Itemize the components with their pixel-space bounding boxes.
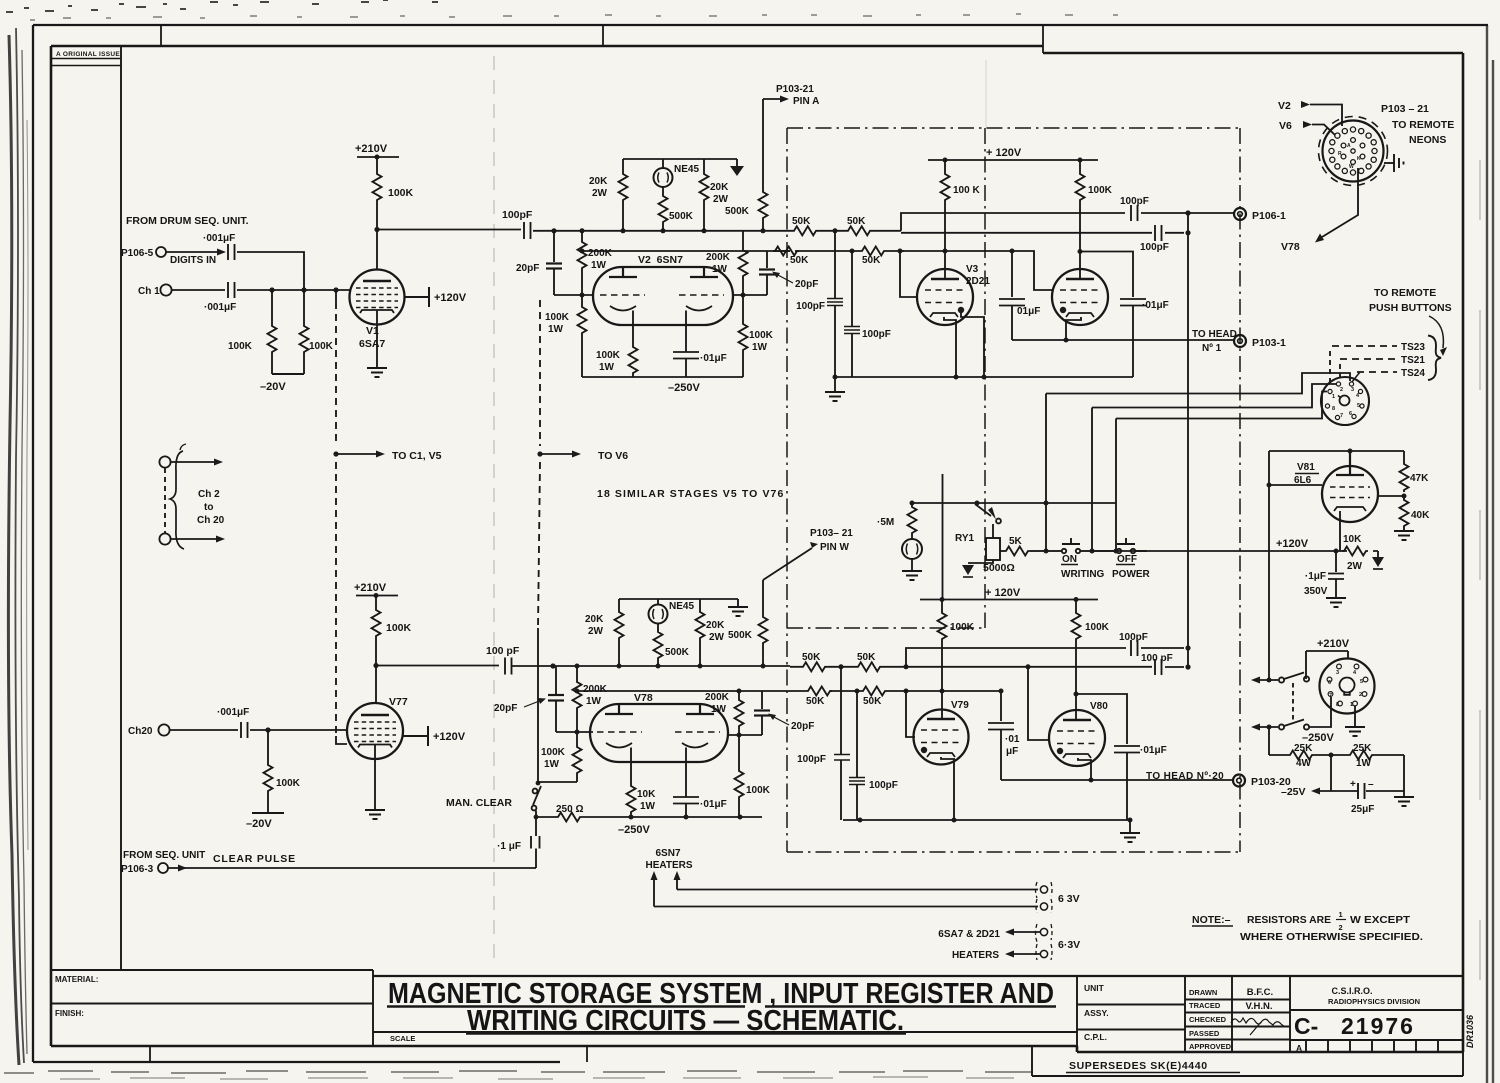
node riser A rail: [1044, 501, 1049, 506]
svg-text:UNIT: UNIT: [1084, 983, 1105, 993]
wire riser A (to socket pin1): [1045, 394, 1047, 552]
terminal P103-20: [1233, 775, 1291, 789]
capacitor ·001uF (Ch1): [204, 282, 236, 313]
resistor 100K (Ch20 grid return): [264, 730, 301, 813]
terminal Ch20: [128, 724, 170, 737]
svg-text:+ 120V: + 120V: [986, 147, 1022, 159]
wire V78 left grid line: [556, 731, 593, 733]
svg-text:CHECKED: CHECKED: [1189, 1015, 1227, 1024]
capacitor 100 pF (output 20b): [1141, 653, 1184, 675]
wire V2 neon pointer: [1278, 100, 1342, 126]
svg-text:A: A: [1347, 143, 1351, 149]
pushbutton OFF: [1092, 538, 1147, 553]
fraction 1/2: [1339, 910, 1343, 932]
tube V4 2D21: [1052, 269, 1108, 325]
wire TO HEAD No20 line: [1001, 779, 1233, 781]
label P103-21 TO REMOTE NEONS: [1381, 103, 1454, 146]
svg-text:200K: 200K: [583, 684, 608, 695]
svg-text:+ 120V: + 120V: [985, 587, 1021, 599]
svg-text:FROM DRUM SEQ. UNIT.: FROM DRUM SEQ. UNIT.: [126, 215, 249, 227]
svg-text:1W: 1W: [712, 264, 728, 275]
node V2 right grid: [741, 293, 746, 298]
svg-text:V78: V78: [1281, 241, 1300, 253]
arrow into cap: [217, 249, 226, 256]
svg-text:ASSY.: ASSY.: [1084, 1008, 1109, 1018]
tube V79 2D21: [914, 700, 970, 765]
svg-text:5K: 5K: [1009, 536, 1023, 547]
svg-text:RADIOPHYSICS DIVISION: RADIOPHYSICS DIVISION: [1328, 997, 1420, 1006]
wire -250V rail 20: [536, 816, 762, 818]
node B mid: [850, 249, 855, 254]
ground V1: [367, 368, 387, 377]
svg-text:1W: 1W: [591, 260, 607, 271]
node second output: [1185, 230, 1190, 235]
svg-text:47K: 47K: [1410, 473, 1429, 484]
resistor 20K 2W (right 20): [696, 610, 726, 666]
svg-text:V6: V6: [1279, 120, 1292, 132]
node A mid: [833, 228, 838, 233]
node +120V at V77: [403, 726, 466, 746]
svg-text:TO C1, V5: TO C1, V5: [392, 450, 442, 462]
node 100K right bottom: [738, 815, 743, 820]
tube V81 6L6: [1322, 451, 1378, 522]
resistor 47K: [1400, 451, 1430, 492]
svg-text:TS23: TS23: [1401, 342, 1425, 353]
svg-text:NOTE:–: NOTE:–: [1192, 914, 1231, 926]
node 25K mid: [1329, 753, 1334, 758]
node V80 cathode joins head20: [1089, 778, 1094, 783]
svg-text:+120V: +120V: [433, 731, 466, 743]
svg-text:P103-21: P103-21: [776, 84, 814, 95]
resistor 25K 4W: [1269, 743, 1348, 769]
arrow curve to TS group: [1429, 316, 1443, 348]
switch manual clear: [532, 781, 541, 836]
svg-text:100K: 100K: [545, 312, 570, 323]
svg-text:1W: 1W: [586, 696, 602, 707]
neon lamp (writing indicator): [902, 535, 922, 559]
node TO C1,V5: [333, 451, 338, 456]
svg-text:1: 1: [1339, 910, 1343, 919]
wire V81 grid from switch riser: [1268, 451, 1270, 680]
wire V78 neon pointer: [1281, 168, 1358, 253]
wire right grid line 20: [728, 734, 762, 736]
svg-text:·1 μF: ·1 μF: [497, 841, 521, 852]
svg-text:6·3V: 6·3V: [1058, 939, 1080, 951]
node cap1 top: [1010, 249, 1015, 254]
wire rail A20 to second cap: [906, 666, 1152, 668]
resistor 25K 1W: [1348, 743, 1404, 769]
resistor 100K (V3 plate load): [941, 160, 981, 279]
capacitor 20pF (right trimmer 20): [754, 691, 814, 735]
capacitor 100pF (output 20a): [1119, 632, 1184, 656]
svg-text:DRAWN: DRAWN: [1189, 988, 1217, 997]
svg-text:100K: 100K: [386, 622, 412, 634]
svg-text:5: 5: [1357, 403, 1360, 409]
svg-text:–250V: –250V: [618, 824, 650, 836]
wire switch top to bias chain: [538, 781, 577, 783]
wire rail A20 50K chain: [790, 666, 906, 668]
switch RY1 contact: [975, 504, 1001, 523]
resistor 100K (V80 plate load): [1072, 600, 1110, 721]
revision strip: A ORIGINAL ISSUE: [120, 46, 122, 970]
node 20K right bottom: [702, 228, 707, 233]
resistor 100K 1W (right bias): [739, 295, 774, 377]
wire top rail (+ supply of NE45 chain): [623, 159, 737, 172]
brace Ch2-Ch20: [170, 451, 184, 549]
svg-text:1W: 1W: [752, 342, 768, 353]
wire rail A (plate bus): [553, 230, 790, 232]
node grid bus junction: [333, 287, 338, 292]
svg-text:100K: 100K: [950, 622, 975, 633]
svg-text:W EXCEPT: W EXCEPT: [1350, 914, 1411, 926]
wire V3 shield to rail: [961, 313, 984, 377]
switch gang link dashed: [1292, 683, 1294, 723]
resistor 50K (A20-1): [801, 652, 827, 671]
neon lamp NE45: [654, 164, 700, 187]
svg-text:8: 8: [1336, 702, 1339, 708]
resistor ·5M: [877, 505, 917, 535]
ground stage rail: [825, 377, 845, 401]
node -20V rail: [260, 374, 304, 393]
svg-text:WRITING: WRITING: [1061, 569, 1105, 580]
svg-text:+120V: +120V: [434, 292, 467, 304]
socket octal (+210V): [1320, 659, 1375, 714]
svg-text:21976: 21976: [1341, 1013, 1415, 1039]
label 6SN7 HEATERS: [645, 848, 692, 871]
svg-text:FINISH:: FINISH:: [55, 1009, 84, 1018]
resistor 20K 2W (left): [589, 172, 628, 231]
wire junction to coupling cap: [376, 665, 499, 667]
wire right grid line: [733, 294, 767, 296]
node 100K right top 20: [1074, 597, 1079, 602]
svg-text:P106-1: P106-1: [1252, 210, 1286, 222]
svg-text:P103 – 21: P103 – 21: [1381, 103, 1429, 115]
wire writing rail to +120V rail: [942, 474, 944, 599]
ground stage20 rail: [1120, 820, 1140, 842]
svg-text:TRACED: TRACED: [1189, 1001, 1221, 1010]
top fold ticks: [161, 25, 1043, 53]
ground 40K: [1394, 531, 1414, 540]
svg-text:100K: 100K: [1088, 185, 1113, 196]
node 500K/NE45 bottom: [661, 228, 666, 233]
svg-text:20K: 20K: [589, 176, 608, 187]
terminal P103-1: [1234, 335, 1286, 349]
node 20K left bottom 20: [617, 664, 622, 669]
svg-text:25K: 25K: [1353, 743, 1372, 754]
svg-text:Nº 1: Nº 1: [1202, 343, 1222, 354]
wire arrow Ch2: [171, 461, 214, 463]
node B junction: [898, 249, 903, 254]
wire -25V tap: [1318, 755, 1331, 791]
capacitor ·01uF (V78 cathode right): [673, 797, 727, 817]
svg-text:50K: 50K: [847, 216, 866, 227]
resistor 5K: [1000, 536, 1046, 556]
svg-text:500K: 500K: [728, 630, 753, 641]
node B20 mid: [855, 689, 860, 694]
svg-text:20pF: 20pF: [516, 263, 539, 274]
capacitor ·01uF (V79 to head): [988, 691, 1020, 780]
label ON WRITING: [1061, 554, 1105, 580]
node Ch20 junction: [265, 727, 270, 732]
svg-text:50K: 50K: [862, 255, 881, 266]
terminal P106-1: [1234, 208, 1286, 222]
node 100K left top 20: [940, 597, 945, 602]
svg-text:40K: 40K: [1411, 510, 1430, 521]
svg-text:HEATERS: HEATERS: [952, 950, 999, 961]
svg-text:100pF: 100pF: [502, 209, 533, 221]
wire arrow TO C1,V5: [336, 453, 376, 455]
node V78 left grid: [575, 730, 580, 735]
svg-text:1W: 1W: [548, 324, 564, 335]
node +210V label: [1306, 638, 1350, 679]
node V78 right grid: [737, 733, 742, 738]
svg-text:50K: 50K: [857, 652, 876, 663]
node V80 plate tap: [1074, 692, 1079, 697]
svg-text:CLEAR PULSE: CLEAR PULSE: [213, 853, 296, 865]
node 200K top: [580, 228, 585, 233]
resistor 100K (grid return left): [228, 290, 277, 374]
node +210V supply V77: [354, 582, 398, 608]
node RY1 arm: [975, 501, 980, 506]
wire V81 top rail: [1269, 450, 1404, 452]
svg-text:100 pF: 100 pF: [486, 645, 520, 657]
svg-text:K: K: [1357, 156, 1361, 162]
resistor 500K (below NE45 20): [654, 624, 690, 667]
svg-text:500K: 500K: [669, 211, 694, 222]
svg-text:P103– 21: P103– 21: [810, 528, 853, 539]
node 500K bottom 20: [761, 664, 766, 669]
node 5K to riser: [1044, 549, 1049, 554]
wire V80 grid drop: [1028, 667, 1050, 740]
capacitor 20pF (left trimmer 20): [494, 666, 564, 732]
wire 25K right leg: [1403, 755, 1405, 791]
svg-text:RY1: RY1: [955, 533, 975, 544]
svg-text:100 pF: 100 pF: [1141, 653, 1173, 664]
svg-text:–250V: –250V: [668, 382, 700, 394]
node plate junction: [373, 663, 378, 668]
svg-text:25μF: 25μF: [1351, 804, 1374, 815]
capacitor 100pF (grid leak right 20): [849, 691, 898, 820]
svg-text:1: 1: [1350, 702, 1353, 708]
wire V78 cathode leads down: [631, 762, 686, 797]
resistor 50K (B20-2): [861, 687, 887, 708]
resistor 200K 1W (left coupling): [578, 231, 613, 295]
relay RY1: [955, 524, 1000, 560]
resistor 10K 1W (V78 cathode): [627, 784, 657, 817]
svg-text:50K: 50K: [802, 652, 821, 663]
svg-text:V79: V79: [951, 700, 969, 711]
wire rail B20: [577, 690, 790, 692]
capacitor ·01uF (V2 cathode right): [673, 352, 727, 377]
resistor 50K (A20-2): [856, 652, 882, 671]
svg-text:C-: C-: [1294, 1013, 1318, 1039]
svg-text:100K: 100K: [746, 785, 771, 796]
svg-text:V77: V77: [389, 696, 408, 708]
node 5M top: [910, 501, 915, 506]
svg-text:25K: 25K: [1294, 743, 1313, 754]
svg-text:100K: 100K: [1085, 622, 1110, 633]
node V2 left grid: [580, 293, 585, 298]
resistor 100K 1W (left bias 20): [541, 732, 582, 782]
svg-text:RESISTORS ARE: RESISTORS ARE: [1247, 914, 1331, 926]
svg-text:·01μF: ·01μF: [700, 799, 727, 810]
svg-text:NE45: NE45: [674, 164, 699, 175]
wire V2 cathode leads down: [633, 325, 686, 352]
wire V80 cathode to head line: [1078, 758, 1091, 780]
wire rail B 50K chain: [773, 250, 904, 252]
wire control rail: [912, 502, 1116, 504]
resistor 10K 2W: [1342, 534, 1368, 572]
node +120V rail (bottom): [920, 587, 1098, 600]
svg-text:TS21: TS21: [1401, 355, 1425, 366]
ground RY1 coil: [962, 560, 993, 577]
svg-text:6SA7: 6SA7: [359, 338, 385, 350]
wire manual clear feed: [537, 628, 539, 781]
svg-text:100K: 100K: [228, 341, 253, 352]
resistor 50K (B1): [773, 247, 809, 267]
resistor 50K (A2): [846, 216, 872, 235]
svg-text:3: 3: [1351, 387, 1354, 393]
svg-text:+120V: +120V: [1276, 538, 1309, 550]
tube V1 6SA7: [350, 270, 405, 351]
svg-text:200K: 200K: [588, 248, 613, 259]
wire V79 cathode to rail: [941, 757, 954, 820]
svg-text:10K: 10K: [637, 789, 656, 800]
svg-text:ON: ON: [1062, 554, 1077, 565]
svg-text:B.F.C.: B.F.C.: [1247, 987, 1273, 998]
ground 1uF: [1326, 598, 1346, 607]
node 100K right top: [1078, 158, 1083, 163]
svg-text:20K: 20K: [706, 620, 725, 631]
node +120V rail (V81 cathode): [1092, 538, 1378, 551]
wire cap to V1 grid: [237, 289, 350, 291]
svg-text:200K: 200K: [706, 252, 731, 263]
node V80 grid tap: [1026, 664, 1031, 669]
capacitor 100pF (second output): [901, 225, 1184, 253]
svg-text:Ch 20: Ch 20: [197, 515, 225, 526]
svg-text:TO HEAD: TO HEAD: [1192, 329, 1237, 340]
svg-text:SUPERSEDES SK(E)4440: SUPERSEDES SK(E)4440: [1069, 1060, 1208, 1072]
label TS21: [1340, 355, 1425, 366]
capacitor 1uF 350V: [1304, 551, 1344, 598]
svg-text:WRITING CIRCUITS — SCHEMATIC.: WRITING CIRCUITS — SCHEMATIC.: [467, 1005, 904, 1037]
svg-text:350V: 350V: [1304, 586, 1328, 597]
resistor 500K (to PIN A): [725, 99, 768, 231]
wire V77 cathode to ground: [374, 745, 376, 810]
label V81 6L6: [1294, 462, 1319, 486]
svg-text:100pF: 100pF: [862, 329, 891, 340]
node riser C: [1114, 549, 1119, 554]
wire V81 cathode drop: [1339, 511, 1341, 551]
svg-text:20K: 20K: [710, 182, 729, 193]
wire V79 grid drop: [906, 691, 915, 737]
svg-text:50K: 50K: [806, 696, 825, 707]
svg-text:R: R: [1338, 151, 1342, 157]
wire stage20 ground rail: [843, 819, 1130, 821]
node man clear rail: [534, 815, 539, 820]
svg-text:500K: 500K: [665, 647, 690, 658]
svg-text:2W: 2W: [709, 632, 725, 643]
label OFF POWER: [1112, 554, 1151, 580]
node B20 junction: [904, 689, 909, 694]
capacitor 01uF (V3 to head): [999, 251, 1040, 340]
wire rail B (coupling bus): [582, 250, 790, 252]
svg-text:2W: 2W: [713, 194, 729, 205]
wire top rail 20: [619, 599, 738, 610]
svg-text:C.S.I.R.O.: C.S.I.R.O.: [1331, 986, 1372, 996]
tube V78 6SN7 (racetrack): [590, 692, 728, 762]
svg-text:V80: V80: [1090, 701, 1108, 712]
svg-text:SCALE: SCALE: [390, 1034, 415, 1043]
wire long output vertical: [1187, 213, 1189, 669]
wire rail A20 (plate bus): [553, 665, 790, 667]
svg-text:50K: 50K: [790, 255, 809, 266]
wire arrow Ch20: [171, 538, 216, 540]
label P103-21 PIN A with arrow: [763, 84, 819, 107]
svg-text:100 K: 100 K: [953, 185, 980, 196]
svg-text:DR1036: DR1036: [1465, 1014, 1475, 1048]
svg-text:6: 6: [1328, 680, 1331, 686]
ground arrow (top right of NE45 rail): [730, 166, 744, 176]
label 6SA7 & 2D21 heaters: [938, 929, 1000, 961]
wire output riser 20: [906, 648, 1126, 667]
node V81 plate: [1348, 449, 1353, 454]
ground (NE45 rail 20): [728, 606, 748, 616]
svg-text:2: 2: [1359, 692, 1362, 698]
svg-text:100pF: 100pF: [869, 780, 898, 791]
wire TS risers: [1329, 351, 1331, 382]
svg-text:P103-20: P103-20: [1251, 776, 1291, 788]
svg-text:100K: 100K: [749, 330, 774, 341]
svg-text:250 Ω: 250 Ω: [556, 804, 583, 815]
node +120V at V1: [404, 287, 467, 307]
node rail B20 200K: [737, 689, 742, 694]
capacitor ·001uF (digits in): [203, 233, 235, 260]
capacitor 20pF (right trimmer): [759, 251, 818, 295]
svg-text:APPROVED: APPROVED: [1189, 1042, 1232, 1051]
resistor 200K 1W (left coupling 20): [573, 666, 608, 732]
wire junction to coupling cap: [377, 229, 521, 231]
svg-text:8: 8: [1332, 406, 1335, 412]
label NOTE: [1192, 914, 1423, 943]
node cap 20 top: [999, 689, 1004, 694]
ground octal pin1: [1345, 706, 1365, 736]
svg-text:PIN A: PIN A: [793, 96, 819, 107]
node +210V supply V1: [355, 143, 399, 172]
wire rail A 50K chain: [790, 230, 901, 232]
resistor 500K (below NE45): [659, 187, 694, 231]
svg-text:200K: 200K: [705, 692, 730, 703]
wire V2 left grid line: [554, 294, 593, 296]
svg-text:P106-3: P106-3: [121, 864, 154, 875]
capacitor 100pF (grid leak right): [844, 251, 891, 377]
svg-text:TO V6: TO V6: [598, 450, 628, 462]
svg-text:20pF: 20pF: [791, 721, 814, 732]
capacitor 25uF electrolytic: [1331, 779, 1404, 815]
terminal 6.3V pair 1: [1036, 882, 1080, 913]
capacitor 20pF (left trimmer): [516, 231, 562, 295]
svg-text:TO HEAD Nº·20: TO HEAD Nº·20: [1146, 771, 1224, 782]
node rail B20 start: [575, 689, 580, 694]
bottom fold ticks: [150, 1046, 587, 1062]
svg-text:·5M: ·5M: [877, 517, 894, 528]
node rail dots 20: [858, 818, 863, 823]
svg-text:6: 6: [1349, 411, 1352, 417]
wire plate junction down: [375, 638, 377, 703]
wire plate junction down to V1: [376, 202, 378, 269]
terminal Ch 1: [138, 284, 172, 297]
capacitor 100pF (grid leak left): [796, 231, 843, 377]
